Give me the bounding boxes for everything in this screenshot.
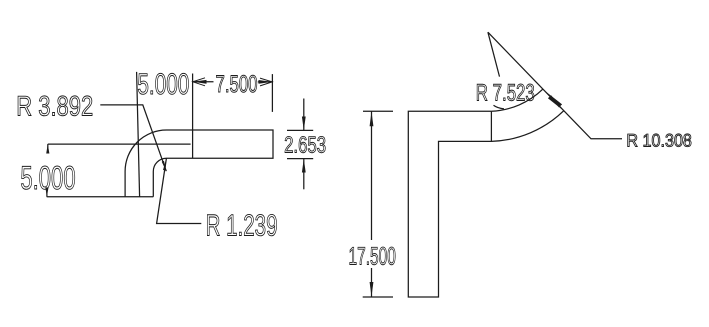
svg-text:2.653: 2.653 (284, 132, 326, 158)
svg-text:R 1.239: R 1.239 (206, 210, 278, 243)
svg-text:R 7.523: R 7.523 (476, 81, 535, 107)
svg-text:5.000: 5.000 (20, 159, 75, 196)
svg-text:R 3.892: R 3.892 (16, 91, 93, 122)
svg-text:5.000: 5.000 (137, 68, 189, 101)
svg-text:R 10.308: R 10.308 (626, 130, 692, 150)
svg-text:17.500: 17.500 (349, 242, 396, 270)
svg-text:7.500: 7.500 (216, 71, 258, 98)
